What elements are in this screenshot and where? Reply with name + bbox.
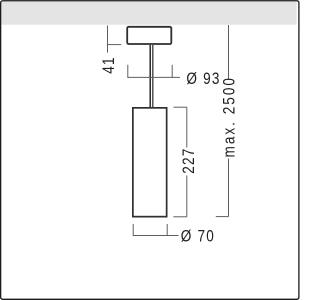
tick 227 bottom (173, 216, 187, 218)
tick 41 bottom (107, 44, 121, 46)
svg-text:Ø 70: Ø 70 (181, 227, 215, 246)
tick max2500 bottom (216, 216, 229, 218)
dimension line 41 (107, 26, 109, 53)
tick Ø70 right (166, 224, 168, 236)
tick Ø93 right (171, 65, 173, 78)
svg-text:max. 2500: max. 2500 (220, 76, 239, 157)
suspension stem outer (149, 45, 153, 108)
svg-text:227: 227 (180, 147, 199, 173)
suspension stem core (151, 45, 153, 108)
tick Ø70 left (132, 224, 134, 236)
ceiling band (1, 1, 296, 25)
dimension line max2500 upper (228, 25, 230, 80)
dimension line Ø70 (133, 235, 178, 237)
tick Ø93 left (127, 65, 129, 78)
tick 227 top (174, 106, 187, 108)
canopy (127, 27, 171, 44)
dimension line Ø93 (128, 76, 180, 78)
svg-text:41: 41 (100, 56, 119, 74)
dimension line 227 lower (186, 176, 188, 217)
dimension line 227 upper (186, 107, 188, 147)
svg-text:Ø 93: Ø 93 (186, 70, 220, 89)
luminaire cylinder (133, 108, 167, 217)
dimension line max2500 lower (228, 159, 230, 217)
